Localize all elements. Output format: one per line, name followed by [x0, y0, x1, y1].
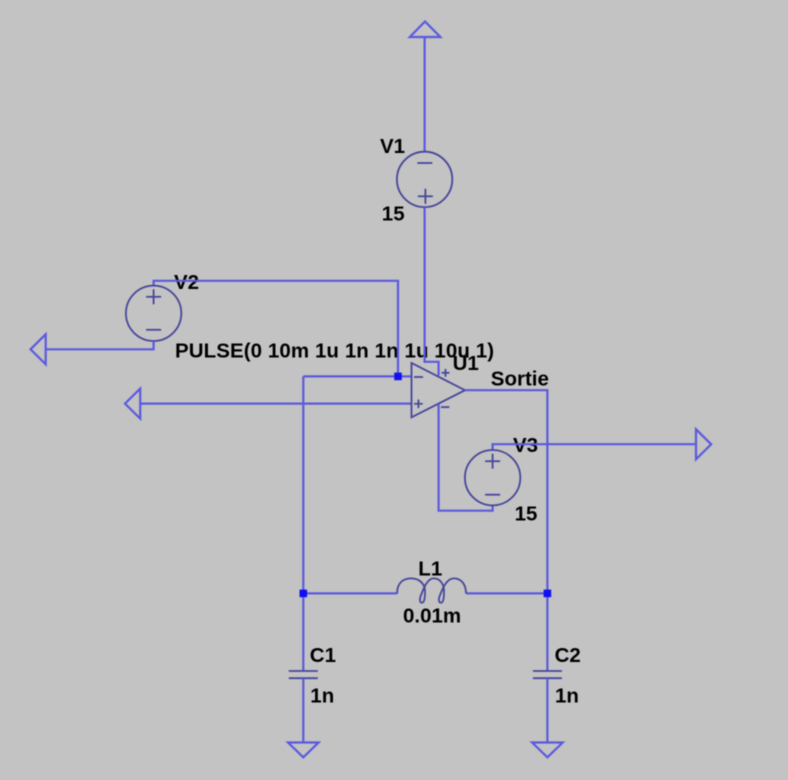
- svg-text:1n: 1n: [310, 685, 334, 708]
- wire V1 bottom to op-amp V+ pin: [425, 207, 439, 375]
- wire junction left to feedback column: [303, 375, 398, 377]
- voltage source V2: [126, 286, 181, 341]
- wire port flag to V2 bottom: [46, 341, 154, 349]
- wire op-amp V- pin to V3 bottom: [439, 404, 493, 511]
- wire feedback column down to L1/C1 node: [302, 376, 304, 593]
- wire C1 top: [302, 593, 304, 671]
- port flag right (Sortie output): [696, 429, 711, 459]
- svg-text:15: 15: [515, 502, 538, 525]
- op-amp U1: [412, 363, 466, 417]
- wire V2 top route to inverting junction: [154, 281, 398, 374]
- wire V3 top to output port: [493, 444, 696, 450]
- voltage source V3: [465, 450, 520, 505]
- voltage source V1: [397, 152, 452, 207]
- svg-text:1n: 1n: [555, 685, 579, 708]
- wire op-amp output to Sortie column: [465, 390, 547, 593]
- ground under C2: [532, 743, 563, 758]
- svg-text:15: 15: [382, 203, 405, 226]
- svg-text:V1: V1: [380, 135, 405, 158]
- svg-text:0.01m: 0.01m: [403, 605, 461, 628]
- wire L1 right lead: [466, 592, 547, 594]
- svg-text:PULSE(0 10m 1u 1n 1n 1u 10u 1): PULSE(0 10m 1u 1n 1n 1u 10u 1): [175, 340, 494, 363]
- wire from power flag to V1: [424, 37, 426, 152]
- wire C2 top: [546, 593, 548, 671]
- power flag (up arrow at top): [410, 22, 441, 38]
- ground under C1: [288, 743, 319, 758]
- wire to non-inverting input: [140, 403, 411, 405]
- port flag left (V2 minus): [31, 334, 46, 364]
- svg-text:Sortie: Sortie: [491, 367, 549, 390]
- capacitor C2: [533, 671, 562, 678]
- inductor L1: [397, 578, 466, 602]
- junction at inverting input: [394, 373, 402, 381]
- wire C1 bottom: [302, 678, 304, 742]
- wire L1 left lead: [303, 592, 397, 594]
- svg-text:L1: L1: [418, 557, 442, 580]
- svg-text:U1: U1: [453, 352, 479, 375]
- svg-text:V2: V2: [174, 271, 199, 294]
- wire C2 bottom: [546, 678, 548, 742]
- svg-text:C2: C2: [555, 644, 581, 667]
- wire junction to inverting input: [398, 375, 412, 377]
- port flag left (non-inverting input): [125, 389, 140, 419]
- svg-text:V3: V3: [513, 434, 538, 457]
- svg-text:C1: C1: [310, 644, 336, 667]
- capacitor C1: [289, 671, 318, 678]
- junction at L1 right / C2: [544, 590, 552, 598]
- junction at L1 left / C1: [300, 590, 308, 598]
